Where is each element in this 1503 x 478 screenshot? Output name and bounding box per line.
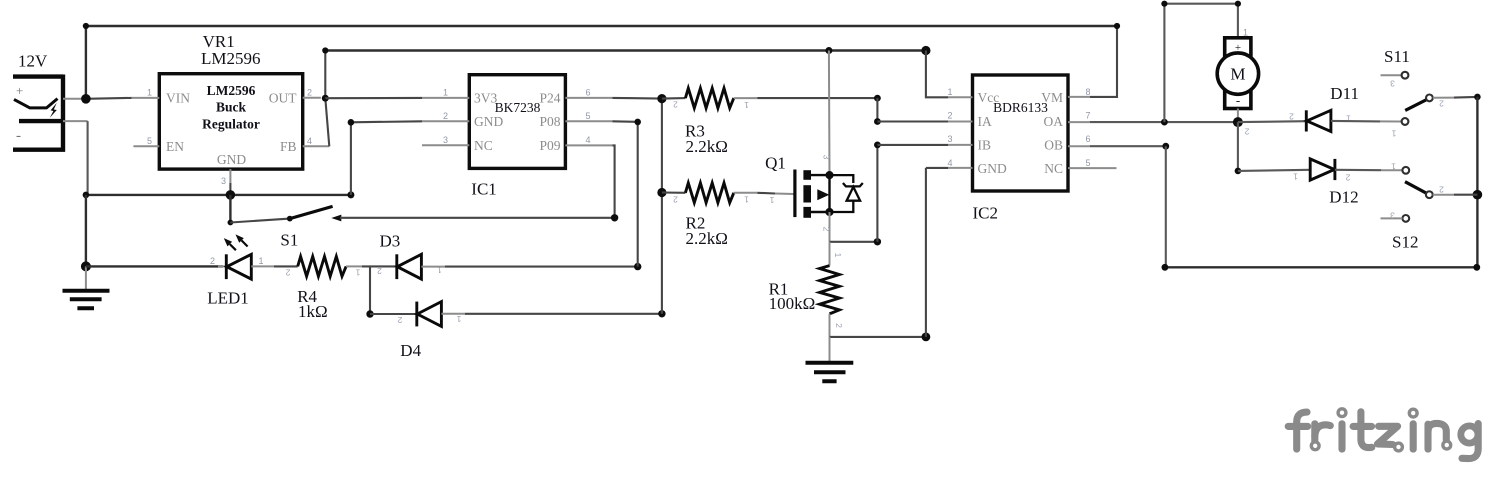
resistor R4 1k [298, 257, 346, 277]
svg-text:D12: D12 [1329, 188, 1358, 207]
VR1 pin stub VIN [132, 97, 160, 99]
svg-text:8: 8 [1086, 87, 1091, 97]
diode D3 triangle [397, 254, 421, 279]
node junction S12 tap [1473, 190, 1483, 200]
svg-text:P09: P09 [539, 138, 560, 153]
IC1 pin stub P24 [565, 97, 612, 99]
wire source to IB column [830, 241, 878, 243]
wire left column to LED junction [85, 195, 87, 267]
node junction R2 tap [657, 188, 666, 197]
S11 terminal3 circle [1402, 72, 1409, 79]
svg-text:3V3: 3V3 [474, 91, 497, 106]
svg-text:3: 3 [947, 134, 952, 144]
svg-text:2: 2 [285, 268, 290, 278]
svg-text:S12: S12 [1392, 233, 1418, 252]
wire IB column [876, 145, 878, 242]
node S1 pivot [287, 216, 293, 222]
wire right rail [1476, 97, 1478, 267]
node junction motor minus [1233, 117, 1243, 127]
svg-text:2: 2 [1244, 127, 1249, 137]
svg-text:1: 1 [769, 195, 774, 205]
fritzing logo rings [1311, 409, 1450, 451]
svg-text:GND: GND [217, 152, 246, 167]
battery BT1 crimp lever [14, 99, 58, 108]
svg-text:2: 2 [377, 266, 382, 276]
wire D12 to S12 [1335, 169, 1381, 171]
svg-text:-: - [16, 128, 21, 144]
Q1 channel pad top [803, 170, 811, 180]
LED1 triangle [227, 254, 252, 279]
svg-text:2: 2 [673, 194, 678, 204]
diode D4 cathode bar [415, 302, 418, 327]
wire 3V3 rail [325, 49, 926, 51]
S12 common circle [1402, 167, 1409, 174]
Q1 source arrow [817, 189, 829, 200]
wire R3 to IA corner [757, 97, 877, 99]
svg-text:100kΩ: 100kΩ [769, 294, 816, 313]
wire S11 to right rail [1454, 96, 1478, 99]
node gnd rail right end [347, 191, 354, 198]
VR1 pin stub OUT [303, 97, 321, 99]
wire IA to IC2 [877, 120, 948, 122]
svg-text:3: 3 [221, 176, 226, 186]
wire ground to LED1 [86, 265, 223, 267]
svg-text:P08: P08 [539, 114, 560, 129]
resistor R1 100k [820, 266, 840, 314]
fritzing logo [1288, 412, 1478, 459]
svg-text:D3: D3 [380, 232, 401, 251]
wire gnd rail [86, 194, 351, 196]
IC1 pin stub P08 [565, 120, 612, 122]
node junction OA riser [1161, 119, 1168, 126]
node junction D4 tap [366, 310, 373, 317]
svg-text:FB: FB [280, 139, 297, 154]
wire Vcc riser [926, 51, 948, 98]
svg-text:D4: D4 [400, 341, 421, 360]
wire 3V3 rail left drop to OUT [324, 51, 326, 99]
motor M1 pin stub bottom [1237, 109, 1239, 123]
LED1 light arrow 1 [230, 244, 236, 250]
IC1 pin stub P09 [565, 144, 612, 146]
driver IC2 box [973, 75, 1069, 191]
svg-text:2.2kΩ: 2.2kΩ [686, 137, 728, 156]
LED1 cathode bar [225, 254, 228, 279]
svg-text:IC2: IC2 [973, 203, 999, 222]
ground GND1 [63, 291, 110, 308]
node junction source-IB [874, 238, 881, 245]
svg-text:1: 1 [355, 268, 360, 278]
svg-text:4: 4 [307, 136, 312, 146]
svg-text:2.2kΩ: 2.2kΩ [686, 229, 728, 248]
IC1 pin stub NC [422, 144, 469, 146]
svg-text:1: 1 [1391, 129, 1396, 139]
wire IA drop [876, 98, 878, 121]
svg-text:-: - [1236, 93, 1240, 108]
svg-text:2: 2 [307, 87, 312, 97]
Q1 body diode wiring [830, 175, 854, 212]
svg-text:OUT: OUT [269, 91, 297, 106]
svg-text:1kΩ: 1kΩ [298, 302, 328, 321]
Q1 drain node [825, 171, 833, 179]
IC2 pin stub NC [1068, 167, 1117, 169]
node junction P24-R3 [657, 94, 666, 103]
R2 pin stub right [734, 192, 758, 194]
node junction D4-column [658, 310, 665, 317]
Q1 source node [825, 208, 833, 216]
LED1 light arrow 2 [242, 240, 248, 246]
node bend top link left [1161, 1, 1167, 7]
wire OB to drop [1090, 145, 1166, 147]
node bend rail2 left [322, 47, 328, 53]
node junction LED ground [81, 261, 91, 271]
svg-text:1: 1 [1391, 162, 1396, 172]
svg-text:2: 2 [397, 315, 402, 325]
battery BT1 lightning bolt [50, 103, 57, 118]
diode D12 cathode bar [1333, 159, 1336, 180]
switch S1 feed from gnd rail [229, 195, 231, 223]
node junction VR1 GND [226, 190, 236, 200]
Q1 drain link [811, 174, 830, 176]
VR1 pin stub FB [303, 145, 330, 147]
svg-text:2: 2 [1439, 99, 1444, 109]
wire S12 to right rail [1454, 194, 1478, 196]
S12 terminal2 circle [1426, 191, 1433, 198]
node junction OUT [322, 95, 329, 102]
diode D11 triangle [1307, 110, 1331, 131]
svg-text:NC: NC [1044, 161, 1063, 176]
diode D4 triangle [417, 302, 441, 327]
S11 pin stub common [1380, 120, 1402, 122]
D3 pin stub right [421, 266, 445, 268]
wire battery+ to VIN [86, 97, 132, 100]
svg-text:5: 5 [586, 111, 591, 121]
svg-text:6: 6 [1086, 134, 1091, 144]
wire OA to motor minus [1090, 121, 1238, 123]
wire FB to OUT link [325, 98, 329, 146]
svg-text:3: 3 [1390, 211, 1395, 221]
S11 terminal2 stub [1433, 97, 1454, 99]
resistor R2 2.2k [685, 183, 733, 203]
wire D4 row [370, 313, 417, 315]
node junction battery plus [81, 94, 91, 104]
node junction IC2 gnd [922, 333, 931, 342]
IC2 pin stub OA [1068, 121, 1090, 123]
svg-text:LM2596: LM2596 [201, 49, 261, 68]
node bend top link right [1235, 1, 1241, 7]
svg-text:NC: NC [474, 138, 493, 153]
wire VR1 GND stub to rail [229, 183, 231, 195]
svg-text:1: 1 [443, 87, 448, 97]
svg-text:M: M [1230, 65, 1245, 84]
wire bottom rail [1165, 266, 1477, 268]
VR1 pin stub GND [229, 169, 231, 183]
diode D11 cathode bar [1305, 110, 1308, 131]
wire LED1 to R4 [274, 265, 298, 267]
wire motor to D11 [1238, 120, 1306, 123]
R1 pin stub top [829, 242, 831, 266]
battery pin plus [63, 98, 86, 100]
Q1 body vertical [828, 175, 830, 212]
wire P08 drop column [637, 122, 639, 267]
svg-text:S1: S1 [280, 231, 298, 250]
svg-text:OB: OB [1044, 138, 1063, 153]
wire node to R3 [662, 97, 686, 100]
Q1 body diode triangle [847, 187, 861, 201]
svg-text:VIN: VIN [166, 91, 190, 106]
R1 pin stub bottom [829, 314, 831, 337]
node gnd rail left end [83, 192, 90, 199]
Q1 body diode bar with wings [843, 183, 863, 186]
resistor R3 2.2k [685, 88, 733, 108]
switch S1 arrow terminal [331, 215, 341, 222]
ground GND2 [806, 363, 854, 382]
svg-text:6: 6 [586, 87, 591, 97]
node junction D3-P08 [634, 263, 641, 270]
svg-text:1: 1 [744, 195, 749, 205]
svg-text:GND: GND [474, 114, 503, 129]
Q1 gate pin stub [775, 193, 794, 196]
svg-text:+: + [16, 83, 23, 98]
svg-text:Buck: Buck [216, 100, 247, 115]
svg-text:5: 5 [147, 136, 152, 146]
ground stub GND2 [829, 337, 831, 363]
S11 terminal2 circle [1426, 95, 1433, 102]
R4 pin stub right [346, 265, 362, 267]
svg-text:2: 2 [947, 111, 952, 121]
svg-text:Regulator: Regulator [202, 117, 260, 132]
svg-text:BK7238: BK7238 [495, 100, 541, 115]
wire battery- drop to gnd rail [87, 121, 89, 195]
diode D12 triangle [1310, 159, 1334, 180]
wire R2 to Q1 gate [757, 192, 775, 195]
node bend IC1 gnd corner [348, 119, 355, 126]
svg-text:BDR6133: BDR6133 [993, 100, 1048, 115]
node bend D12 tap [1235, 168, 1242, 175]
D4 pin stub right [441, 313, 465, 315]
node bend top-right [1114, 23, 1120, 29]
ground stub GND1 [85, 266, 87, 290]
wire top rail right drop to VM [1090, 26, 1117, 97]
svg-text:2: 2 [210, 256, 215, 266]
motor M1 circle [1217, 53, 1258, 94]
S12 terminal3 circle [1402, 215, 1409, 222]
wire P08 to drop [613, 120, 638, 123]
svg-text:OA: OA [1044, 114, 1064, 129]
svg-text:D11: D11 [1330, 84, 1359, 103]
LED1 pin stub right [251, 265, 274, 267]
wire OB drop to bottom rail [1165, 146, 1167, 267]
IC2 pin stub IB [948, 144, 972, 146]
IC1 pin stub GND [422, 120, 469, 122]
wire S1 to P09 [340, 217, 615, 219]
VR1 pin stub EN [133, 145, 159, 147]
svg-text:3: 3 [1390, 79, 1395, 89]
svg-text:1: 1 [259, 256, 264, 266]
wire top rail left drop to battery node [85, 26, 87, 99]
svg-text:2: 2 [1289, 112, 1294, 122]
IC1 pin stub 3V3 [422, 97, 469, 99]
motor M1 body [1225, 38, 1251, 109]
wire D4 to R2R3 drop [465, 313, 662, 315]
regulator VR1 box [159, 74, 302, 169]
svg-text:2: 2 [1439, 185, 1444, 195]
svg-text:3: 3 [822, 155, 832, 160]
svg-text:1: 1 [947, 87, 952, 97]
wire motor to D12 drop [1237, 122, 1239, 171]
svg-text:IC1: IC1 [471, 180, 497, 199]
mcu IC1 box [469, 75, 565, 169]
wire R4 to D3 junction [362, 265, 397, 267]
svg-text:Vcc: Vcc [978, 90, 1000, 105]
node bottom rail left [1162, 264, 1169, 271]
svg-text:IA: IA [978, 114, 992, 129]
wire Q1 source down [829, 212, 831, 242]
svg-text:2: 2 [822, 227, 832, 232]
svg-text:12V: 12V [18, 52, 48, 71]
node junction S1-P09 corner [611, 214, 618, 221]
wire top rail [86, 25, 1117, 27]
node bend P08 [634, 119, 641, 126]
svg-text:2: 2 [443, 111, 448, 121]
svg-text:2: 2 [1345, 173, 1350, 183]
svg-text:7: 7 [1086, 111, 1091, 121]
node bend IA [874, 118, 881, 125]
IC2 pin stub GND [948, 167, 972, 169]
S12 terminal3 stub [1381, 217, 1403, 219]
diode D3 cathode bar [395, 254, 398, 279]
wire IC2 GND column [926, 168, 948, 337]
wire P09 drop [613, 145, 615, 217]
S11 terminal3 stub [1381, 74, 1402, 76]
svg-text:GND: GND [978, 161, 1007, 176]
wire IC1 GND drop [351, 121, 422, 195]
node bend IB [874, 142, 881, 149]
R3 pin stub right [734, 97, 758, 99]
svg-text:1: 1 [744, 100, 749, 110]
switch S1 lever [290, 206, 333, 218]
LED1 pin stub left [218, 265, 226, 267]
svg-text:S11: S11 [1384, 47, 1410, 66]
wire P24 column drop [661, 99, 663, 314]
svg-text:LM2596: LM2596 [207, 83, 256, 98]
wire S1 terminal link [230, 219, 289, 223]
node junction rail2 right Vcc tap [921, 46, 930, 55]
wire D3 to P08 drop [445, 266, 638, 268]
svg-text:P24: P24 [539, 91, 560, 106]
wire R1 bottom to IC2 GND column [830, 336, 926, 338]
svg-text:2: 2 [673, 100, 678, 110]
wire D12 row [1238, 170, 1310, 171]
transistor Q1 gate bar [793, 170, 796, 218]
svg-text:LED1: LED1 [207, 289, 249, 308]
wire rail2 to Q1 drain [828, 51, 831, 176]
IC2 pin stub VM [1068, 96, 1090, 98]
svg-text:3: 3 [443, 135, 448, 145]
svg-text:2: 2 [834, 323, 844, 328]
node bend right rail top [1474, 94, 1481, 101]
S12 lever [1405, 182, 1427, 194]
wire OUT to IC1 3V3 [325, 97, 422, 99]
wire motor top link [1164, 4, 1238, 122]
wire IB to IC2 [877, 144, 948, 146]
svg-text:5: 5 [1086, 158, 1091, 168]
wire D3 junction drop to D4 [369, 266, 371, 314]
node bend top-left [83, 23, 89, 29]
Q1 channel pad middle [803, 185, 811, 202]
svg-text:1: 1 [456, 314, 461, 324]
wire node to R2 [662, 191, 686, 193]
IC2 pin stub Vcc [948, 96, 972, 98]
node S1 terminal1 [228, 220, 234, 226]
node junction rail2 Q1-drain tap [825, 47, 832, 54]
svg-text:VM: VM [1041, 90, 1063, 105]
Q1 channel pad bottom [803, 207, 811, 218]
svg-text:IB: IB [978, 138, 992, 153]
wire P24 to R3 node [613, 97, 662, 100]
IC2 pin stub IA [948, 121, 972, 123]
wire D11 to S11 [1331, 120, 1380, 123]
svg-text:1: 1 [833, 253, 843, 258]
svg-text:EN: EN [166, 139, 184, 154]
svg-text:1: 1 [1293, 172, 1298, 182]
svg-text:4: 4 [947, 158, 952, 168]
IC2 pin stub OB [1068, 145, 1090, 147]
svg-text:Q1: Q1 [765, 153, 786, 172]
Q1 source link [811, 211, 830, 213]
S12 terminal2 stub [1433, 194, 1454, 196]
battery BT1 plates [13, 75, 63, 152]
battery pin minus [63, 120, 88, 122]
S12 pin stub common [1381, 169, 1402, 171]
node bottom rail right [1473, 264, 1480, 271]
S11 lever [1405, 100, 1427, 111]
svg-text:4: 4 [586, 135, 591, 145]
node bend R3-IA [874, 95, 881, 102]
S11 common circle [1402, 118, 1409, 125]
svg-text:1: 1 [147, 87, 152, 97]
node bend OB [1162, 143, 1169, 150]
